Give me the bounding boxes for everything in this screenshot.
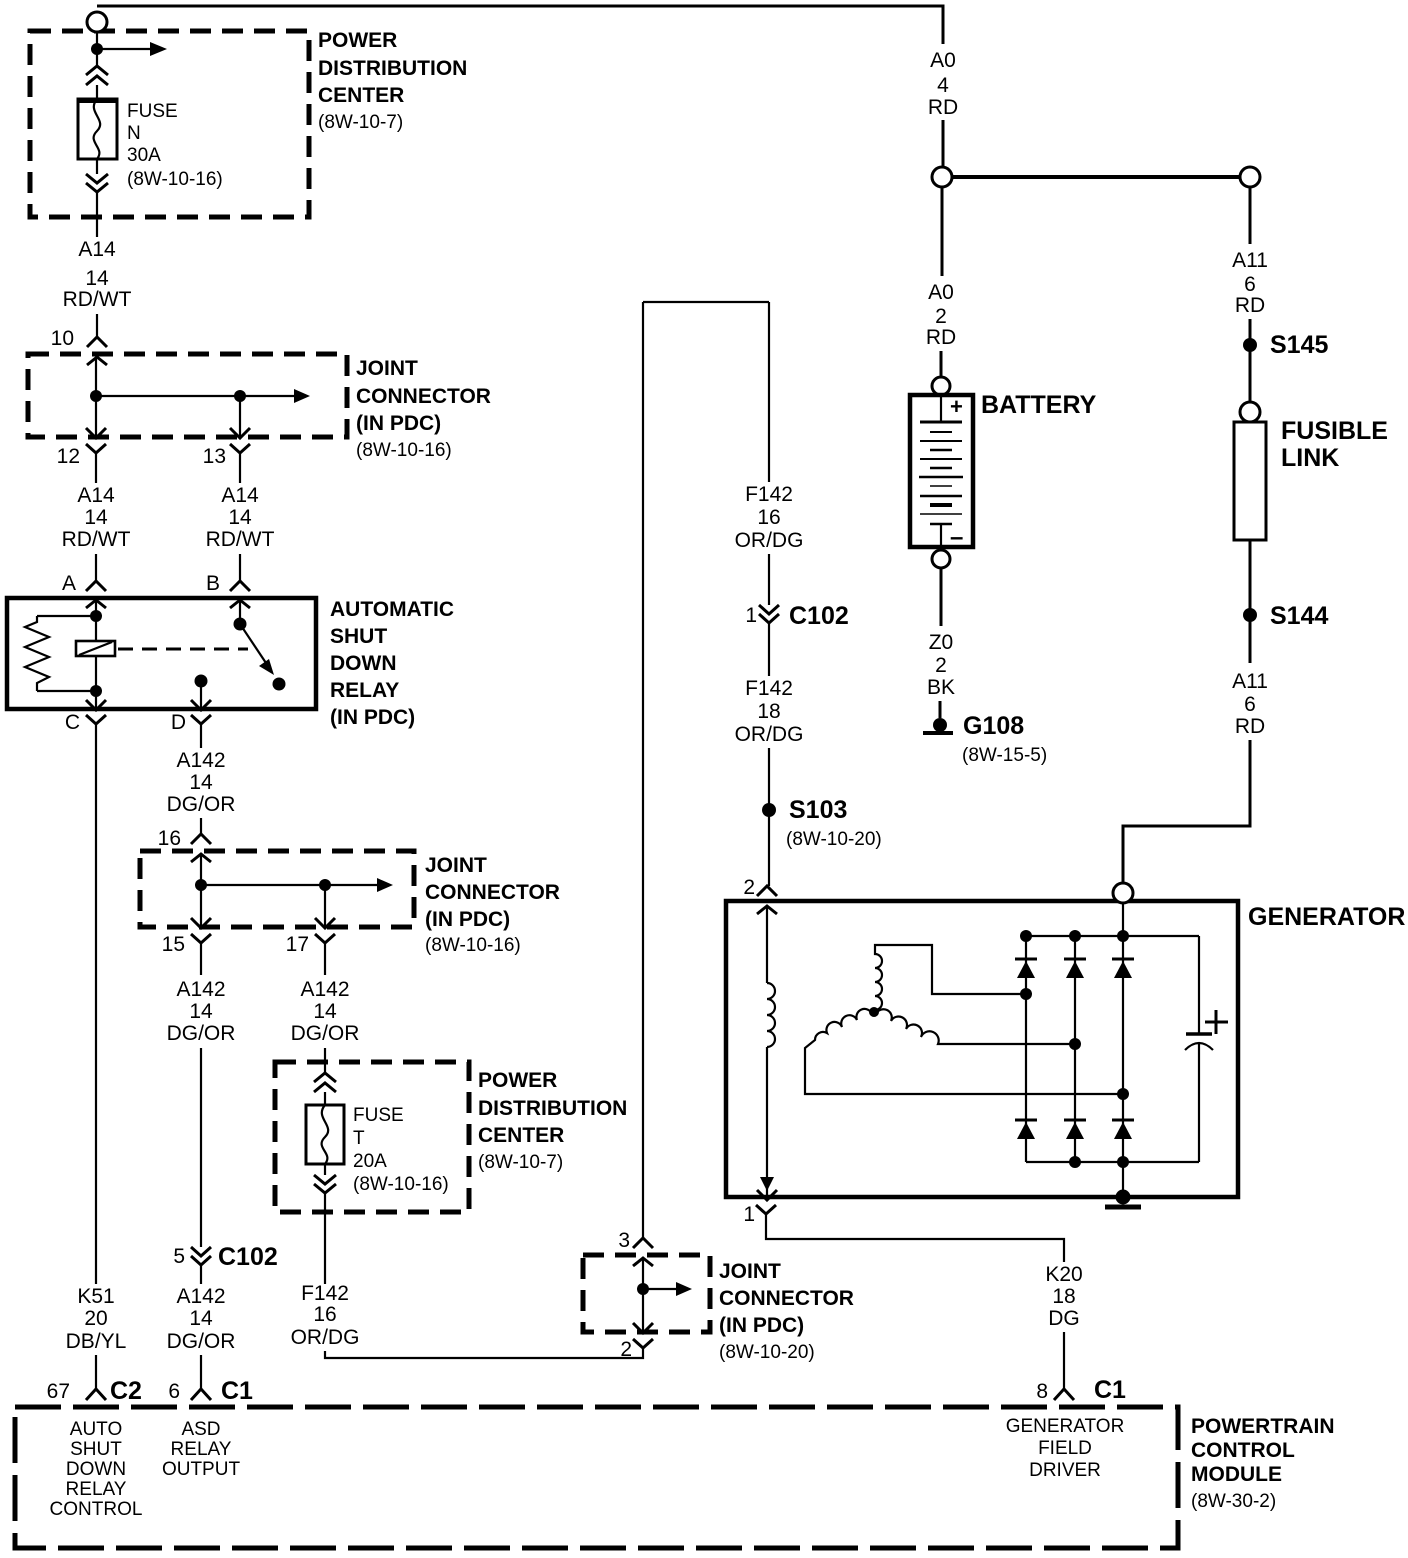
connector chevrons above fuse N [86,66,108,85]
generator box [726,901,1238,1197]
node switch contact [273,678,286,691]
svg-text:(8W-10-16): (8W-10-16) [356,440,452,461]
wire into joint connector pin 10 [96,314,98,337]
svg-text:C: C [65,711,80,734]
wire: JC1 bus arrow [96,389,310,403]
svg-text:18: 18 [757,700,780,723]
connector halves at pin 13 [230,428,250,483]
automatic shut down relay box [7,598,316,709]
node relay top [90,610,102,622]
svg-text:ASD: ASD [181,1419,220,1440]
svg-text:A11: A11 [1232,249,1268,272]
svg-text:AUTO: AUTO [70,1419,122,1440]
svg-text:N: N [127,123,141,144]
svg-text:RD: RD [926,326,956,349]
connector halves at pin A [86,581,106,608]
connector chevrons above fuse T [314,1073,336,1092]
wire into JC2 pin 16 [200,818,202,834]
svg-text:B: B [206,572,220,595]
wire inside JC1 [95,357,97,438]
connector halves at generator pin 2 [757,886,777,914]
svg-text:GENERATOR: GENERATOR [1248,903,1405,931]
node relay bottom [90,685,102,697]
svg-text:(8W-10-16): (8W-10-16) [127,169,223,190]
connector halves at pin B [230,581,250,608]
relay coil [76,641,115,691]
in-line connector C102 (pin 1) [759,605,779,623]
svg-text:(8W-30-2): (8W-30-2) [1191,1491,1276,1512]
label POWER DISTRIBUTION CENTER [318,29,467,133]
wire to ground G108 [939,701,942,718]
node JC1 right [234,390,246,402]
svg-text:SHUT: SHUT [70,1439,122,1460]
svg-text:4: 4 [937,74,949,97]
svg-text:DG/OR: DG/OR [167,1022,236,1045]
svg-text:DG/OR: DG/OR [167,1330,236,1353]
label wire A142 14 DG/OR (pin 17) [291,978,360,1045]
diode D4 lower [1015,1120,1037,1139]
svg-text:RD: RD [1235,715,1265,738]
svg-text:CONTROL: CONTROL [1191,1439,1295,1462]
label POWERTRAIN CONTROL MODULE [1191,1415,1335,1512]
wire K51 to PCM pin 67 [95,1355,97,1389]
powertrain control module box [15,1407,1178,1548]
svg-text:C1: C1 [221,1377,253,1405]
stator centre node [869,1007,879,1017]
svg-text:–: – [950,524,963,551]
wire JC2 right drop [324,885,326,928]
wire JC1 right drop [239,396,241,438]
svg-text:A14: A14 [77,484,115,507]
joint connector (in PDC) box 2 [140,851,414,927]
junction eyelet left [932,167,952,187]
wire pin17 to PDC fuse T [324,1048,326,1073]
svg-text:14: 14 [85,267,109,290]
label wire F142 16 OR/DG (upper) [735,483,804,552]
svg-text:(IN PDC): (IN PDC) [719,1314,804,1337]
connector halves at generator pin 1 [756,1190,777,1214]
svg-text:F142: F142 [745,483,793,506]
svg-text:(8W-10-20): (8W-10-20) [786,829,882,850]
svg-text:C102: C102 [789,602,849,630]
svg-text:FUSIBLE: FUSIBLE [1281,417,1388,445]
connector fork at pin 6 [191,1389,211,1400]
label wire A11 6 RD (upper) [1232,249,1268,317]
label wire A142 14 DG/OR (below D) [167,749,236,816]
wire relay A to coil [95,600,97,641]
wire: field feed inside generator [766,906,768,983]
connector fork at pin 67 [86,1389,106,1400]
wire pin15 drop to C102 [200,1048,202,1247]
svg-text:OR/DG: OR/DG [291,1326,360,1349]
svg-text:3: 3 [618,1229,630,1252]
connector halves at pin 10 [87,337,107,365]
rectifier leg 3 (to ground) [1122,903,1124,1197]
svg-text:RELAY: RELAY [66,1479,127,1500]
stator winding phase 1 (up) [875,945,1024,1010]
svg-text:12: 12 [57,445,80,468]
capacitor C (suppression) [1185,1034,1213,1050]
svg-text:RD/WT: RD/WT [206,528,275,551]
svg-text:A142: A142 [300,978,349,1001]
wire: A11 into generator [1123,740,1250,884]
svg-text:OR/DG: OR/DG [735,529,804,552]
svg-text:S103: S103 [789,796,847,824]
fuse T 20A [306,1105,344,1164]
label wire A11 6 RD (lower) [1232,670,1268,738]
wire to PCM pin 6 [200,1355,202,1389]
node top rail 2 [1069,930,1081,942]
label JOINT CONNECTOR (IN PDC) 3 [719,1260,854,1363]
svg-text:S144: S144 [1270,602,1328,630]
svg-text:(8W-10-16): (8W-10-16) [353,1174,449,1195]
svg-text:67: 67 [47,1380,70,1403]
wire relay D to edge [200,681,202,710]
wire inside JC3 [642,1258,644,1333]
node top rail 1 [1020,930,1032,942]
wire A14 upper segment [96,159,98,174]
svg-text:8: 8 [1036,1380,1048,1403]
wire: JC2 bus arrow [201,878,393,892]
svg-text:F142: F142 [745,677,793,700]
svg-text:FUSE: FUSE [353,1105,404,1126]
connector chevrons below fuse N [86,174,108,192]
svg-text:DOWN: DOWN [330,652,397,675]
svg-text:RD: RD [928,96,958,119]
svg-text:13: 13 [203,445,226,468]
switch blade with arrow [240,624,274,675]
rectifier leg 1 [1025,936,1027,1162]
battery positive eyelet [932,377,950,395]
field coil (rotor winding) [767,983,775,1047]
svg-text:JOINT: JOINT [425,854,487,877]
svg-text:14: 14 [189,1000,213,1023]
diode D5 lower [1064,1120,1086,1139]
svg-text:2: 2 [620,1338,632,1361]
diode D1 upper [1015,959,1037,978]
wire: field coil to pin 1 with arrow [760,1047,774,1196]
wire fuse T down [324,1164,326,1175]
svg-text:(IN PDC): (IN PDC) [330,706,415,729]
splice S145 [1243,338,1257,352]
svg-text:POWER: POWER [478,1069,557,1092]
svg-text:CONNECTOR: CONNECTOR [425,881,560,904]
svg-text:G108: G108 [963,712,1024,740]
wire: branch arrow inside PDC [97,42,167,56]
svg-text:FIELD: FIELD [1038,1438,1092,1459]
fusible link [1234,422,1266,540]
svg-text:10: 10 [51,327,74,350]
svg-text:RELAY: RELAY [171,1439,232,1460]
wire: A0 feed down to battery junction [942,120,945,167]
wire: JC3 arrow [643,1282,692,1296]
svg-text:A14: A14 [221,484,259,507]
capacitor + sign [1205,1010,1228,1034]
svg-text:CONNECTOR: CONNECTOR [719,1287,854,1310]
svg-text:A0: A0 [928,281,954,304]
svg-text:RD: RD [1235,294,1265,317]
svg-text:6: 6 [1244,273,1256,296]
label FUSIBLE LINK [1281,417,1388,472]
svg-text:14: 14 [189,1307,213,1330]
battery [910,394,973,551]
svg-text:GENERATOR: GENERATOR [1006,1416,1125,1437]
wire chevron to fuse T [324,1092,326,1105]
svg-text:14: 14 [189,771,213,794]
wire to splice S145 [1249,319,1252,402]
node switch pivot [234,618,247,631]
in-line connector C102 (pin 5) [191,1247,211,1265]
svg-text:(8W-10-16): (8W-10-16) [425,935,521,956]
svg-text:C1: C1 [1094,1376,1126,1404]
svg-text:MODULE: MODULE [1191,1463,1282,1486]
svg-text:DISTRIBUTION: DISTRIBUTION [478,1097,627,1120]
svg-text:POWERTRAIN: POWERTRAIN [1191,1415,1335,1438]
node relay D [195,675,208,688]
svg-text:14: 14 [84,506,108,529]
wire K20 to PCM pin 8 [1063,1332,1065,1389]
label JOINT CONNECTOR (IN PDC) 1 [356,357,491,461]
rectifier leg 2 [1074,936,1076,1162]
wire: cross link to fusible link feed [952,175,1240,179]
wire F142 to JC3 pin 2 [325,1348,643,1358]
label pin 8 function: generator field driver [1006,1416,1125,1481]
svg-text:CONTROL: CONTROL [50,1499,143,1520]
capacitor leg [1198,936,1200,1162]
joint connector (in PDC) box 1 [28,354,347,437]
svg-text:DG/OR: DG/OR [291,1022,360,1045]
label wire K20 18 DG [1045,1263,1082,1330]
node bottom rail 2 [1069,1156,1081,1168]
node phase2 tap [1069,1038,1081,1050]
label wire Z0 2 BK [927,631,955,699]
label S103 [786,796,882,850]
svg-text:A142: A142 [176,978,225,1001]
connector halves at pin D [191,700,211,724]
svg-text:A11: A11 [1232,670,1268,693]
ground G108 [923,718,953,733]
svg-text:AUTOMATIC: AUTOMATIC [330,598,454,621]
label wire A142 14 DG/OR (pin 15) [167,978,236,1045]
rectifier top rail [1026,935,1199,937]
connector halves at pin 16 [191,834,211,862]
wire to C102 pin 1 [768,554,770,605]
label pin 67 function: auto shut down relay control [50,1419,143,1520]
wire below C102 [768,623,770,676]
svg-text:+: + [950,394,963,419]
svg-text:2: 2 [743,876,755,899]
label wire A142 14 DG/OR (pin 6) [167,1285,236,1353]
wire: fusible link feed down [1249,187,1252,244]
power distribution center box (8W-10-7) [30,31,309,217]
wire relay coil to pin C [95,691,97,710]
dashed actuation link [118,648,248,651]
splice S144 [1243,608,1257,622]
connector halves at pin 3 [633,1238,653,1266]
label wire A0 4 RD [928,49,958,119]
stator winding phase 3 (left) [805,1009,1121,1094]
resistor (relay suppression) [25,616,96,691]
splice S103 [762,803,776,817]
label wire A14 14 RD/WT (upper) [63,238,132,311]
node top rail 3 [1117,930,1129,942]
svg-text:OR/DG: OR/DG [735,723,804,746]
svg-text:C2: C2 [110,1377,142,1405]
svg-text:6: 6 [168,1380,180,1403]
wire inside JC2 [200,854,202,928]
label G108 [962,712,1047,766]
svg-text:1: 1 [743,1203,755,1226]
power distribution center box 2 (8W-10-7) [275,1062,469,1212]
svg-text:DOWN: DOWN [66,1459,126,1480]
svg-text:(8W-10-7): (8W-10-7) [478,1152,563,1173]
connector halves at pin C [86,700,106,724]
svg-text:SHUT: SHUT [330,625,387,648]
label POWER DISTRIBUTION CENTER 2 [478,1069,627,1173]
wire: K20 from generator pin 1 [766,1214,1064,1262]
svg-text:JOINT: JOINT [719,1260,781,1283]
wire: down to battery [941,187,944,276]
svg-text:15: 15 [162,933,185,956]
svg-text:DISTRIBUTION: DISTRIBUTION [318,57,467,80]
svg-text:16: 16 [158,827,181,850]
label wire A14 14 RD/WT (left) [62,484,131,551]
svg-text:JOINT: JOINT [356,357,418,380]
wire: chevron to fuse N [96,85,98,99]
svg-text:DRIVER: DRIVER [1029,1460,1101,1481]
label fuse T value [353,1105,449,1195]
wire: eyelet into PDC [96,32,98,66]
wire A142 to PCM pin 6 [200,1265,202,1284]
svg-text:(8W-10-7): (8W-10-7) [318,112,403,133]
svg-text:C102: C102 [218,1243,278,1271]
node: PDC feed junction [91,43,103,55]
svg-text:30A: 30A [127,145,161,166]
connector fork at pin 8 [1054,1389,1074,1400]
fusible link eyelet [1240,402,1260,422]
node JC2 left [195,879,207,891]
label wire K51 20 DB/YL [66,1285,127,1353]
wire relay B to pivot [239,600,241,624]
connector halves at pin 15 [191,918,211,975]
label wire F142 18 OR/DG [735,677,804,746]
svg-text:16: 16 [757,506,780,529]
diode D3 upper [1112,959,1134,978]
svg-text:BATTERY: BATTERY [981,391,1097,419]
wire to relay pin A [95,554,97,581]
svg-text:DB/YL: DB/YL [66,1330,127,1353]
node JC3 [637,1283,649,1295]
label fuse N value [127,101,223,190]
svg-text:K20: K20 [1045,1263,1082,1286]
fuse N 30A [78,99,117,159]
svg-text:A14: A14 [78,238,116,261]
battery negative eyelet [932,550,950,568]
svg-text:Z0: Z0 [929,631,954,654]
svg-text:1: 1 [745,604,757,627]
svg-text:F142: F142 [301,1282,349,1305]
node phase1 tap [1020,988,1032,1000]
svg-text:POWER: POWER [318,29,397,52]
stator winding phase 2 (middle) [876,1009,1073,1044]
connector halves at JC3 pin 2 [633,1323,653,1348]
svg-text:6: 6 [1244,693,1256,716]
connector chevrons below fuse T [314,1175,336,1193]
svg-text:LINK: LINK [1281,444,1339,472]
svg-text:OUTPUT: OUTPUT [162,1459,241,1480]
generator output eyelet [1113,883,1133,903]
node JC1 left [90,390,102,402]
svg-text:A0: A0 [930,49,956,72]
wire: bridge over to F142 feed [643,301,769,303]
wire below fusible link [1249,540,1252,663]
node bottom rail 3 [1117,1156,1129,1168]
connector eyelet at PDC top [87,12,107,32]
svg-text:A: A [62,572,76,595]
diode D2 upper [1064,959,1086,978]
svg-text:D: D [171,711,186,734]
label wire A14 14 RD/WT (right) [206,484,275,551]
svg-text:14: 14 [313,1000,337,1023]
svg-text:20A: 20A [353,1151,387,1172]
svg-text:CENTER: CENTER [318,84,404,107]
svg-text:(8W-15-5): (8W-15-5) [962,745,1047,766]
svg-text:T: T [353,1128,365,1149]
svg-text:5: 5 [173,1245,185,1268]
svg-text:K51: K51 [77,1285,114,1308]
wire to splice S103 [768,748,770,886]
svg-text:16: 16 [313,1303,336,1326]
connector halves at pin 17 [315,918,335,975]
wire from pin D down [200,724,202,748]
joint connector (in PDC) box 3 [583,1255,710,1332]
wire: left branch down to JC3 pin 3 [642,302,644,1238]
svg-text:DG: DG [1048,1307,1080,1330]
svg-text:RD/WT: RD/WT [63,288,132,311]
svg-text:2: 2 [935,654,947,677]
junction eyelet right [1240,167,1260,187]
svg-text:RD/WT: RD/WT [62,528,131,551]
label wire F142 16 OR/DG (lower) [291,1282,360,1349]
svg-text:A142: A142 [176,1285,225,1308]
label pin 6 function: asd relay output [162,1419,241,1480]
label JOINT CONNECTOR (IN PDC) 2 [425,854,560,956]
svg-text:(IN PDC): (IN PDC) [425,908,510,931]
wire: battery negative down [940,568,943,626]
connector halves at pin 12 [86,428,106,483]
svg-text:RELAY: RELAY [330,679,399,702]
node JC2 right [319,879,331,891]
svg-text:2: 2 [935,305,947,328]
svg-text:DG/OR: DG/OR [167,793,236,816]
wire: right branch down [768,302,770,482]
svg-text:CONNECTOR: CONNECTOR [356,385,491,408]
rectifier bottom rail [1026,1161,1199,1163]
svg-text:FUSE: FUSE [127,101,178,122]
svg-text:S145: S145 [1270,331,1328,359]
svg-text:(IN PDC): (IN PDC) [356,412,441,435]
svg-text:20: 20 [84,1307,107,1330]
wire relay C long drop [95,722,97,1284]
generator internal ground [1105,1190,1141,1208]
svg-text:A142: A142 [176,749,225,772]
node phase3 tap [1117,1088,1129,1100]
diode D6 lower [1112,1120,1134,1139]
wire into battery [940,351,943,377]
svg-text:18: 18 [1052,1285,1075,1308]
svg-text:(8W-10-20): (8W-10-20) [719,1342,815,1363]
svg-text:14: 14 [228,506,252,529]
